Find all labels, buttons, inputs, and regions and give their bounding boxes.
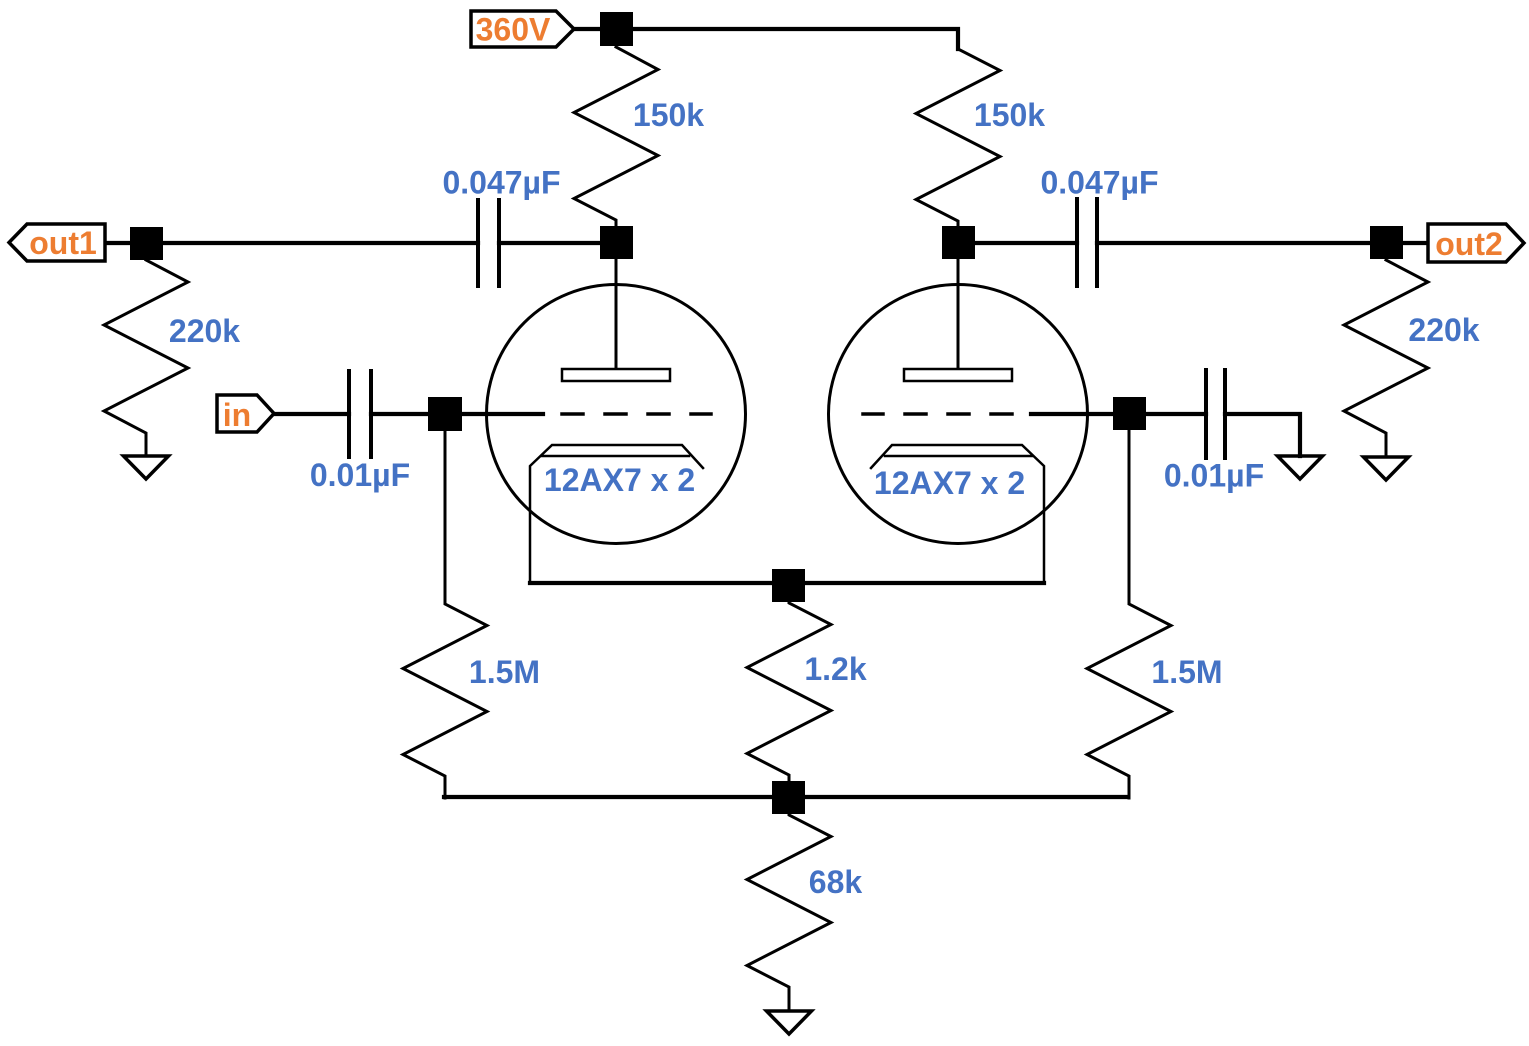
svg-text:1.2k: 1.2k bbox=[804, 651, 866, 687]
resistor 220k left (grid leak out1) bbox=[104, 260, 188, 456]
wire node plate2 to capacitor 0.047uF right bbox=[958, 241, 1077, 245]
svg-text:150k: 150k bbox=[974, 97, 1045, 133]
node B+ junction bbox=[600, 12, 633, 46]
svg-text:in: in bbox=[223, 397, 251, 433]
svg-text:0.01µF: 0.01µF bbox=[1164, 458, 1264, 494]
triode V1 plate bar bbox=[562, 369, 670, 381]
svg-text:0.047µF: 0.047µF bbox=[442, 165, 560, 201]
svg-text:220k: 220k bbox=[169, 313, 240, 349]
resistor 220k right (grid leak out2) bbox=[1344, 260, 1428, 457]
node plate2 junction bbox=[942, 226, 975, 259]
triode V2 plate lead bbox=[957, 259, 960, 369]
grid dashes V2 bbox=[863, 412, 1012, 416]
ground under 220k left bbox=[124, 456, 169, 479]
capacitor 0.047uF left bbox=[478, 200, 499, 286]
triode V1 plate lead bbox=[615, 259, 618, 369]
resistor 1.5M left (grid return V1) bbox=[403, 430, 487, 798]
wire top rail B+ to right 150k bbox=[616, 29, 958, 49]
svg-text:150k: 150k bbox=[633, 97, 704, 133]
triode V2 envelope bbox=[829, 285, 1088, 544]
resistor 1.5M right (grid return V2) bbox=[1087, 430, 1171, 798]
wire node grid2 to capacitor 0.01uF right bbox=[1031, 412, 1206, 416]
svg-text:0.01µF: 0.01µF bbox=[310, 457, 410, 493]
output tag out1 bbox=[9, 224, 105, 261]
wire cathode bus bbox=[530, 581, 1044, 585]
wire capacitor 0.047uF left to node plate1 bbox=[499, 241, 616, 245]
triode V1 envelope bbox=[487, 285, 746, 544]
capacitor 0.01uF right bbox=[1206, 370, 1225, 458]
power tag 360V bbox=[471, 11, 574, 47]
wire in tag to capacitor 0.01uF left bbox=[274, 412, 349, 416]
capacitor 0.047uF right bbox=[1077, 199, 1097, 286]
node grid2 junction bbox=[1113, 397, 1146, 430]
ground under 220k right bbox=[1364, 457, 1409, 480]
wire tail bus bbox=[444, 795, 1128, 799]
node out2 junction bbox=[1370, 226, 1403, 259]
node grid1 junction bbox=[428, 397, 462, 431]
node out1 junction bbox=[130, 227, 163, 260]
svg-text:12AX7 x 2: 12AX7 x 2 bbox=[874, 465, 1025, 501]
input tag in bbox=[217, 395, 274, 432]
node cathode junction bbox=[772, 569, 805, 602]
svg-text:1.5M: 1.5M bbox=[469, 654, 540, 690]
resistor 1.2k (cathode bias) bbox=[747, 601, 831, 782]
svg-text:1.5M: 1.5M bbox=[1151, 654, 1222, 690]
wire capacitor 0.01uF left to node grid1 bbox=[371, 412, 543, 416]
grid dashes V1 bbox=[562, 412, 711, 416]
svg-text:out2: out2 bbox=[1435, 226, 1503, 262]
svg-text:220k: 220k bbox=[1408, 312, 1479, 348]
svg-text:68k: 68k bbox=[809, 864, 863, 900]
node tail junction bbox=[772, 781, 805, 814]
wire capacitor 0.01uF right to ground bbox=[1225, 414, 1300, 456]
svg-text:12AX7 x 2: 12AX7 x 2 bbox=[544, 462, 695, 498]
node plate1 junction bbox=[600, 226, 633, 259]
triode V2 plate bar bbox=[904, 369, 1012, 381]
wire 360V tag to node B+ bbox=[574, 27, 616, 31]
triode V1 cathode bbox=[530, 445, 703, 583]
svg-text:out1: out1 bbox=[29, 225, 97, 261]
resistor 150k right (plate load V2) bbox=[916, 49, 1000, 228]
output tag out2 bbox=[1428, 224, 1524, 262]
svg-text:360V: 360V bbox=[476, 12, 551, 48]
resistor 150k left (plate load V1) bbox=[574, 47, 658, 228]
ground under 0.01uF right bbox=[1278, 456, 1323, 479]
triode V2 cathode bbox=[871, 445, 1044, 583]
wire capacitor 0.047uF right to node out2 bbox=[1097, 241, 1428, 245]
wire out1 tag to node out1 to capacitor 0.047uF left bbox=[105, 241, 478, 245]
resistor 68k (tail) bbox=[747, 813, 831, 1011]
svg-text:0.047µF: 0.047µF bbox=[1040, 165, 1158, 201]
capacitor 0.01uF left bbox=[349, 371, 371, 457]
ground under 68k bbox=[767, 1011, 812, 1034]
